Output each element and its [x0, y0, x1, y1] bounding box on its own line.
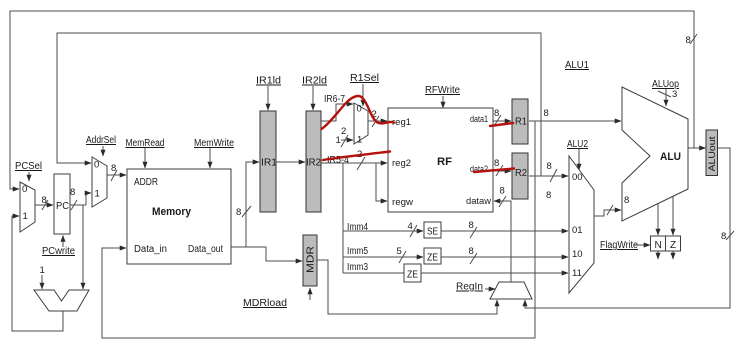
flag register N: [651, 236, 666, 251]
svg-text:MDRload: MDRload: [243, 298, 287, 309]
svg-text:8: 8: [624, 195, 629, 206]
svg-text:MemWrite: MemWrite: [194, 138, 234, 149]
wire MemRead control: [144, 148, 146, 168]
svg-text:ZE: ZE: [427, 253, 438, 264]
svg-text:Z: Z: [670, 240, 676, 251]
svg-text:Imm3: Imm3: [347, 262, 368, 273]
svg-text:AddrSel: AddrSel: [86, 135, 116, 146]
wire AddrSel output to Memory ADDR: [107, 174, 126, 176]
wire Data_out up to IR1: [246, 162, 259, 247]
svg-text:01: 01: [572, 225, 583, 236]
ALU: [622, 87, 688, 221]
red annotation strike data1: [490, 123, 513, 126]
svg-text:IR1ld: IR1ld: [256, 76, 281, 87]
mux ALU2: [569, 156, 594, 293]
svg-text:Data_in: Data_in: [134, 244, 167, 255]
red annotation over IR6-7 to reg1: [322, 96, 395, 129]
wire ALU output to ALUout: [688, 147, 706, 149]
svg-text:PCwrite: PCwrite: [42, 246, 75, 257]
svg-text:8: 8: [494, 158, 499, 169]
wire R1 to Memory Data_in loop: [102, 121, 535, 338]
svg-text:RF: RF: [437, 156, 452, 168]
wire IR5-4 field to RF reg2: [321, 162, 387, 164]
wire SE output to ALU2 mux input 01: [441, 230, 568, 232]
wire IR2ld control: [312, 86, 314, 110]
svg-text:3: 3: [672, 89, 677, 100]
svg-text:8: 8: [721, 231, 726, 242]
svg-text:PCSel: PCSel: [15, 161, 42, 172]
wire Imm fields vertical: [342, 163, 344, 273]
svg-text:Memory: Memory: [152, 206, 192, 218]
svg-text:0: 0: [357, 104, 362, 115]
wire Imm4 to SE: [343, 230, 423, 232]
wire PC output: [70, 204, 86, 206]
svg-text:0: 0: [94, 160, 99, 171]
wire PC to AddrSel input 1: [86, 193, 91, 205]
wire MemWrite control: [209, 148, 211, 168]
register MDR: [303, 235, 317, 286]
svg-text:FlagWrite: FlagWrite: [600, 240, 638, 251]
svg-text:MDR: MDR: [306, 246, 317, 273]
svg-text:MemRead: MemRead: [126, 138, 165, 149]
svg-text:R1: R1: [515, 117, 527, 128]
svg-text:IR6-7: IR6-7: [324, 94, 345, 105]
svg-text:1: 1: [95, 189, 100, 200]
wire ALU to N flag: [657, 204, 659, 235]
wire RF data2 to R2: [493, 170, 511, 172]
svg-text:8: 8: [546, 190, 551, 201]
wire adder output loop to PCSel input 1: [12, 216, 63, 331]
svg-text:Imm5: Imm5: [347, 246, 368, 257]
svg-text:ALU: ALU: [660, 151, 681, 163]
register R2: [512, 153, 528, 199]
wire N flag output: [657, 251, 659, 259]
svg-text:0: 0: [22, 184, 27, 195]
wire MDR output to RegIn mux input: [317, 260, 497, 314]
svg-text:dataw: dataw: [466, 196, 492, 206]
wire R2 output to ALU2 mux input 00: [529, 175, 568, 177]
red annotation strike data2: [474, 169, 514, 173]
svg-text:RFWrite: RFWrite: [425, 85, 460, 96]
svg-text:regw: regw: [392, 197, 414, 207]
svg-text:SE: SE: [427, 227, 438, 238]
svg-text:8: 8: [469, 246, 474, 257]
wire Imm5 to ZE: [343, 256, 423, 258]
svg-text:R2: R2: [515, 168, 527, 179]
svg-text:10: 10: [572, 249, 583, 260]
svg-text:ALU2: ALU2: [567, 139, 588, 150]
svg-text:PC: PC: [56, 201, 69, 212]
sign extender SE: [424, 222, 441, 238]
red annotation over IR5-4 to reg2: [323, 152, 390, 161]
svg-text:8: 8: [236, 207, 241, 218]
mux PCSel: [20, 182, 35, 232]
svg-text:5: 5: [397, 246, 402, 257]
wire ALU2 control: [578, 149, 580, 170]
wire ALU2 mux output to ALU input 2: [594, 210, 621, 216]
svg-text:R1Sel: R1Sel: [350, 73, 379, 84]
svg-text:8: 8: [70, 187, 75, 198]
memory block: [127, 169, 231, 264]
svg-text:00: 00: [572, 172, 583, 183]
wire R1Sel output to RF reg1: [368, 120, 387, 122]
wire R1 output to ALU input 1: [529, 120, 621, 122]
svg-text:IR2ld: IR2ld: [302, 76, 327, 87]
svg-text:8: 8: [42, 195, 47, 206]
svg-text:8: 8: [494, 108, 499, 119]
svg-text:8: 8: [500, 186, 505, 197]
register IR1: [260, 111, 276, 212]
mux AddrSel: [92, 157, 107, 207]
wire MDRload control: [309, 288, 311, 300]
wire constant 1 to R1Sel input 1: [341, 139, 353, 141]
wire Memory Data_out to MDR: [231, 247, 302, 261]
svg-text:Data_out: Data_out: [188, 244, 223, 255]
wire RegIn control: [485, 288, 495, 290]
svg-text:ALUout: ALUout: [707, 136, 717, 172]
svg-text:11: 11: [572, 268, 582, 279]
svg-text:data1: data1: [470, 114, 488, 124]
svg-text:ADDR: ADDR: [134, 177, 158, 188]
wire RFWrite control: [442, 96, 444, 108]
wire R1Sel control: [362, 84, 364, 106]
wire regw tap: [376, 163, 387, 201]
zero extender ZE (Imm5): [424, 248, 441, 264]
adder PC+1: [34, 290, 89, 311]
svg-text:8: 8: [686, 35, 691, 46]
svg-text:RegIn: RegIn: [456, 282, 483, 293]
register R1: [512, 99, 528, 144]
zero extender ZE (Imm3): [404, 264, 421, 282]
svg-text:ALU1: ALU1: [565, 60, 589, 71]
register IR2: [306, 111, 321, 212]
wire PCwrite control: [62, 236, 64, 248]
wire IR1 to IR2: [276, 161, 305, 163]
svg-text:8: 8: [547, 161, 552, 172]
wire ALUout output loop to RegIn mux input: [525, 148, 730, 308]
wire adder constant 1 input: [41, 275, 43, 289]
wire IR6-7 field to R1Sel input 0: [321, 104, 353, 121]
register ALUout: [706, 130, 718, 176]
svg-text:1: 1: [40, 265, 45, 276]
wire PCSel mux output to PC: [35, 204, 53, 206]
svg-text:4: 4: [408, 221, 413, 232]
svg-text:8: 8: [469, 220, 474, 231]
svg-text:Imm4: Imm4: [347, 222, 368, 233]
wire Z flag output: [672, 251, 674, 259]
svg-text:IR2: IR2: [306, 158, 321, 169]
svg-text:N: N: [655, 240, 662, 251]
svg-text:ZE: ZE: [407, 270, 418, 281]
svg-text:reg2: reg2: [392, 158, 411, 168]
wire ZE2 output arrow into ALU2 mux input 11: [560, 272, 568, 274]
svg-text:1: 1: [357, 135, 362, 146]
wire ZE output to ALU2 mux input 10: [441, 256, 568, 258]
wire ALUop control: [665, 89, 667, 106]
svg-text:8: 8: [544, 108, 549, 119]
wire FlagWrite control: [634, 244, 650, 246]
wire RF data1 to R1: [493, 120, 511, 122]
svg-text:1: 1: [23, 211, 28, 222]
wire PC down to adder input: [82, 205, 84, 289]
wire ALU to Z flag: [672, 196, 674, 235]
register file RF: [388, 108, 493, 212]
svg-text:IR1: IR1: [261, 158, 277, 169]
mux RegIn: [490, 282, 532, 299]
register PC: [54, 174, 70, 234]
mux R1Sel: [354, 103, 368, 144]
wire IR1ld control: [267, 86, 269, 110]
wire RegIn mux output to RF dataw: [494, 201, 511, 282]
flag register Z: [666, 236, 681, 251]
wire Imm3 to ZE: [343, 272, 566, 274]
svg-text:2: 2: [341, 126, 346, 137]
wire R2 tap loop to AddrSel input 0: [57, 33, 541, 176]
svg-text:1: 1: [336, 135, 341, 146]
wire ALU output feedback top loop to PCSel input 0: [10, 11, 694, 189]
